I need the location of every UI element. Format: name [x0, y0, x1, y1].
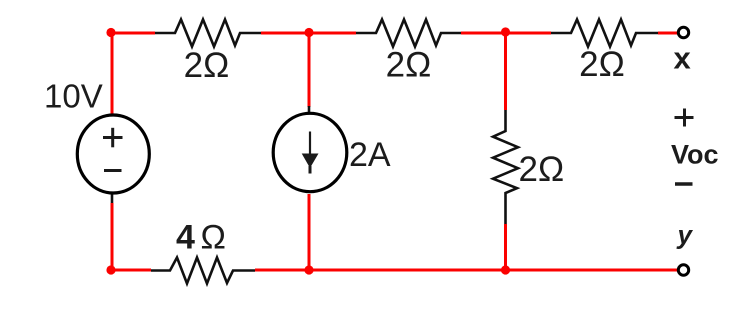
svg-text:2A: 2A: [349, 136, 391, 174]
svg-text:2Ω: 2Ω: [519, 150, 565, 189]
svg-text:2Ω: 2Ω: [386, 46, 432, 85]
svg-text:4Ω: 4Ω: [176, 219, 226, 257]
svg-text:2Ω: 2Ω: [579, 45, 625, 84]
svg-text:10V: 10V: [44, 78, 103, 115]
svg-text:x: x: [674, 41, 692, 76]
svg-text:y: y: [676, 220, 694, 250]
svg-text:Voc: Voc: [671, 140, 719, 170]
svg-text:2Ω: 2Ω: [184, 46, 230, 85]
